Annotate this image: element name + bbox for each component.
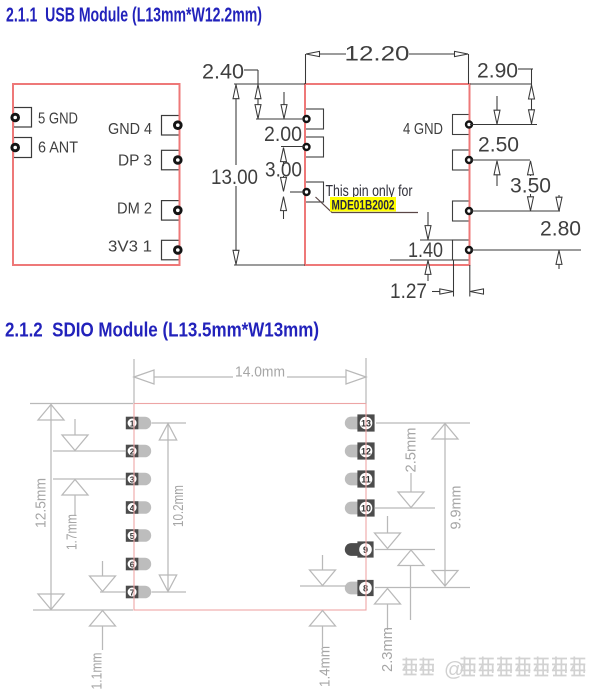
extension line right row1: [470, 124, 537, 126]
extension line pin2: [53, 450, 126, 452]
SDIO pin 10: [345, 499, 375, 516]
pad hole left 3: [302, 188, 310, 196]
svg-text:3.00: 3.00: [265, 158, 302, 182]
svg-text:12.20: 12.20: [345, 42, 410, 66]
SDIO pin 4: [126, 501, 151, 514]
note: This pin only for: [326, 183, 413, 200]
dimension 2.80: [540, 195, 581, 269]
dimension 2.90: [470, 59, 535, 125]
pad hole pin 5: [10, 113, 20, 123]
svg-text:2.1.1 USB Module (L13mm*W12.2: 2.1.1 USB Module (L13mm*W12.2mm): [6, 5, 262, 27]
extension line row2: [281, 146, 305, 148]
bottom edge extension: [33, 609, 133, 611]
svg-text:1.27: 1.27: [390, 279, 427, 303]
dimension 14.0mm: [134, 358, 366, 404]
svg-text:2.3mm: 2.3mm: [379, 627, 396, 672]
pad hole right 3: [465, 207, 473, 215]
footprint left pad 3: [305, 182, 324, 202]
SDIO pin 13: [345, 414, 375, 431]
pad hole right 4: [465, 246, 473, 254]
dimension 1.27: [390, 260, 484, 303]
SDIO module outline: [134, 404, 366, 611]
pin GND 4: [108, 116, 180, 139]
svg-text:2.1.2 SDIO Module (L13.5mm*W1: 2.1.2 SDIO Module (L13.5mm*W13mm): [5, 320, 319, 342]
extension line row3: [290, 191, 305, 193]
svg-text:12.5mm: 12.5mm: [33, 478, 50, 528]
svg-text:4 GND: 4 GND: [403, 121, 443, 138]
dimension 12.20: [306, 42, 469, 85]
svg-text:1.7mm: 1.7mm: [64, 514, 81, 550]
svg-text:3.50: 3.50: [510, 174, 551, 198]
extension line right row3: [470, 210, 560, 212]
highlighted part number MDE01B2002: [330, 197, 396, 213]
extension line pin1: [152, 422, 187, 424]
dimension 2.5mm: [398, 428, 424, 621]
svg-text:14.0mm: 14.0mm: [235, 364, 285, 381]
dimension 10.2mm: [159, 423, 187, 592]
SDIO pin 8: [345, 580, 374, 596]
footprint right pad 2: [453, 150, 470, 170]
SDIO pin 11: [345, 470, 375, 487]
svg-text:13.00: 13.00: [211, 165, 258, 189]
pad hole left 2: [302, 143, 310, 151]
svg-text:1.4mm: 1.4mm: [317, 646, 334, 687]
dimension 2.50: [478, 96, 519, 186]
pin 5 GND: [14, 108, 79, 128]
svg-text:MDE01B2002: MDE01B2002: [332, 198, 395, 213]
SDIO pin 12: [345, 442, 375, 459]
dimension 9.9mm: [432, 423, 465, 587]
dimension 3.00: [265, 158, 302, 220]
svg-text:2.50: 2.50: [478, 133, 519, 157]
dimension 2.00: [264, 92, 302, 166]
extension line pin9: [375, 549, 435, 551]
dimension 1.7mm: [62, 419, 88, 550]
label 4 GND: [403, 121, 443, 138]
pin DP 3: [118, 150, 180, 170]
dimension 1.40: [390, 212, 453, 281]
footprint left pad 1: [305, 109, 324, 129]
SDIO pin 1: [126, 417, 151, 430]
USB footprint outline: [305, 84, 470, 265]
svg-text:2.5mm: 2.5mm: [403, 428, 420, 473]
pad hole pin DP 3: [173, 155, 183, 165]
svg-text:6 ANT: 6 ANT: [38, 140, 78, 157]
SDIO pin 9: [345, 541, 374, 557]
svg-text:2.90: 2.90: [477, 59, 518, 83]
svg-text:5 GND: 5 GND: [38, 111, 78, 128]
svg-text:9.9mm: 9.9mm: [448, 486, 465, 530]
extension line pin3: [53, 478, 126, 480]
svg-text:2.00: 2.00: [264, 122, 302, 146]
dimension 1.1mm: [89, 561, 116, 690]
svg-text:GND 4: GND 4: [108, 121, 152, 138]
footprint right pad 4: [453, 240, 470, 260]
SDIO pin 3: [126, 473, 151, 486]
dimension 1.4mm: [310, 555, 336, 687]
extension line pin7: [152, 591, 187, 593]
pin 3V3 1: [108, 239, 180, 260]
footprint left pad 2: [305, 137, 324, 157]
pad hole right 2: [465, 156, 473, 164]
pad hole right 1: [465, 120, 473, 128]
pin 6 ANT: [14, 138, 79, 158]
leader line for pin note: [316, 197, 419, 213]
watermark zhihu: [403, 657, 586, 676]
extension line pin7 left: [100, 591, 126, 593]
extension line right row4: [470, 249, 581, 251]
USB module outline (top view): [13, 84, 180, 265]
svg-text:1.40: 1.40: [408, 238, 443, 262]
section title 2.1.1 USB Module: [6, 5, 262, 27]
dimension 12.5mm: [33, 404, 65, 610]
extension line right row2: [470, 159, 530, 161]
dimension 13.00: [211, 84, 305, 265]
footprint right pad 3: [453, 201, 470, 221]
svg-text:2.40: 2.40: [202, 60, 244, 84]
pad hole pin DM 2: [173, 206, 183, 216]
pad hole pin 3V3 1: [173, 245, 183, 255]
SDIO pin 6: [126, 558, 151, 571]
footprint right pad 1: [453, 115, 470, 135]
SDIO pin 2: [126, 445, 151, 458]
svg-text:1.1mm: 1.1mm: [89, 653, 106, 690]
SDIO pin 7: [126, 586, 151, 599]
pad hole pin 6: [10, 143, 20, 153]
dimension 2.3mm: [375, 516, 401, 672]
section title 2.1.2 SDIO Module: [5, 320, 319, 342]
pad hole left 1: [302, 115, 310, 123]
svg-text:DM 2: DM 2: [117, 201, 152, 218]
dimension 2.40: [202, 60, 261, 120]
pad hole pin GND 4: [173, 120, 183, 130]
svg-text:@: @: [444, 659, 464, 681]
svg-text:2.80: 2.80: [540, 217, 581, 241]
extension line pin10: [375, 507, 435, 509]
SDIO pin 5: [126, 529, 151, 542]
extension line row1: [256, 118, 305, 120]
top edge extension: [30, 403, 133, 405]
svg-text:3V3 1: 3V3 1: [108, 239, 152, 256]
pin DM 2: [117, 201, 180, 221]
extension line pin13: [376, 422, 470, 424]
extension line pin8 left: [300, 585, 346, 587]
dimension 3.50: [510, 161, 551, 211]
svg-text:10.2mm: 10.2mm: [170, 485, 187, 527]
extension line pin8: [375, 587, 470, 589]
svg-text:DP 3: DP 3: [118, 153, 152, 170]
